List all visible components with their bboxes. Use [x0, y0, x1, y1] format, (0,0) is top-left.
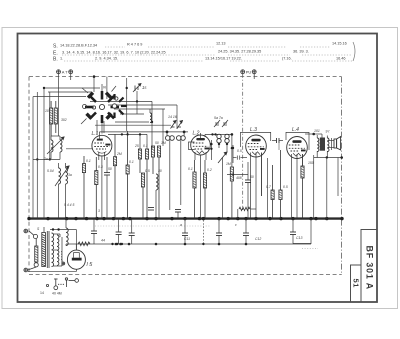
svg-text:50: 50 — [155, 141, 159, 145]
bypass cap 5 — [216, 219, 222, 244]
svg-text:44: 44 — [101, 239, 105, 243]
capacitor C coupling L3-L4 — [272, 138, 283, 150]
band switch star A — [85, 91, 119, 123]
IF transformer 1 — [166, 132, 186, 210]
wire transformer top to bus — [43, 227, 45, 232]
svg-text:B.: B. — [53, 57, 58, 63]
power transformer heater winding — [57, 235, 62, 266]
grid box L2 — [189, 142, 195, 150]
electrolytic cap 3 — [129, 219, 135, 244]
svg-text:L.3: L.3 — [250, 127, 257, 133]
svg-text:2. 9. 4.34. 15.: 2. 9. 4.34. 15. — [95, 57, 118, 61]
svg-text:L.2: L.2 — [193, 131, 200, 137]
svg-text:1.: 1. — [60, 57, 63, 61]
RF choke small coil — [150, 109, 152, 123]
heater wire dots extra — [111, 243, 123, 245]
wire screen L4 — [313, 155, 315, 219]
svg-text:1M: 1M — [226, 162, 231, 166]
svg-text:302: 302 — [61, 118, 67, 122]
band switch star B — [115, 94, 127, 118]
dotted stub right — [302, 248, 318, 250]
svg-text:24.25. 34.35. 27.28.29.35: 24.25. 34.35. 27.28.29.35 — [218, 50, 261, 54]
terminal small below choke — [62, 251, 65, 265]
svg-text:408: 408 — [236, 176, 242, 180]
band switch hub B — [112, 104, 116, 108]
svg-text:L.1: L.1 — [92, 131, 99, 137]
svg-text:0.3: 0.3 — [98, 165, 103, 169]
wire feedback — [326, 158, 328, 219]
switch contact circle left — [83, 105, 87, 109]
junction dots top-left — [36, 75, 153, 160]
power transformer core — [47, 231, 49, 268]
dotted trace under bus — [95, 225, 210, 227]
detector wiring — [211, 140, 248, 175]
bypass cap 6 — [243, 219, 249, 244]
wire speaker frame — [337, 158, 339, 197]
svg-text:36. 39. 3.: 36. 39. 3. — [293, 50, 309, 54]
IF1 trimmer b — [177, 121, 183, 129]
antenna coil pair — [47, 136, 64, 159]
switch contact circle upper — [115, 97, 118, 100]
IF2 trimmer a — [214, 120, 220, 127]
bypass cap 7 — [290, 219, 311, 244]
mains terminal upper — [24, 229, 28, 233]
svg-text:0.1: 0.1 — [143, 144, 148, 148]
voltage selector — [29, 231, 38, 267]
page border frame — [18, 34, 378, 303]
resistor R agc left — [126, 131, 129, 219]
IF transformer 2 — [217, 134, 232, 167]
svg-text:5a 7a: 5a 7a — [214, 116, 223, 120]
svg-text:C12: C12 — [255, 237, 261, 241]
svg-text:PU: PU — [246, 70, 252, 75]
svg-text:a: a — [180, 223, 182, 227]
title block lines — [351, 230, 378, 303]
svg-text:16.46: 16.46 — [336, 57, 346, 61]
coil box NE — [105, 92, 112, 99]
svg-text:L.4: L.4 — [292, 127, 299, 133]
electrolytic cap 2 — [116, 219, 122, 244]
svg-text:0.1: 0.1 — [188, 167, 193, 171]
capacitor C cathode L1 — [104, 157, 110, 219]
tube L1 — [92, 132, 112, 219]
wire L4 anode to transformer — [305, 134, 322, 138]
wire harness top-left horizontals — [33, 88, 177, 125]
svg-text:3: 3 — [98, 209, 100, 213]
svg-text:2a: 2a — [43, 157, 48, 161]
IF1 trimmer a — [171, 121, 177, 129]
svg-text:c: c — [235, 223, 237, 227]
svg-text:5 4 4 5: 5 4 4 5 — [64, 203, 74, 207]
resistor pair upper-left — [50, 101, 58, 136]
grid loop box L3 — [241, 132, 271, 147]
resistor R mid-left a — [82, 156, 85, 219]
svg-text:12.13: 12.13 — [216, 42, 226, 46]
coil box NW — [87, 92, 94, 99]
svg-text:A T: A T — [62, 70, 68, 75]
heater wire lower — [66, 243, 311, 245]
electrolytic cap 1 — [91, 219, 97, 244]
wire harness left verticals — [33, 77, 177, 219]
power transformer HT secondary — [52, 233, 54, 267]
grid loop box L4 — [286, 132, 309, 150]
transformer taps — [53, 234, 62, 266]
tube L2 — [191, 133, 211, 219]
svg-text:1M: 1M — [161, 141, 166, 145]
resistor R screen L1 — [113, 134, 116, 219]
IF2 trimmer b — [222, 120, 228, 127]
coil box SW — [85, 113, 92, 120]
svg-text:10: 10 — [45, 109, 49, 113]
AF choke coil mid — [156, 174, 158, 219]
svg-text:0.5: 0.5 — [283, 185, 288, 189]
capacitor C det — [245, 162, 251, 219]
svg-text:3. 14. 4. 6.15. 14. 8.16.: 3. 14. 4. 6.15. 14. 8.16. 16.17. 32. 19.… — [62, 51, 166, 55]
table right bracket — [353, 42, 355, 61]
resistor R grid L4 — [271, 165, 274, 219]
terminal PU left — [241, 70, 245, 74]
dashed drop pu link — [202, 220, 204, 244]
svg-text:C13: C13 — [296, 236, 302, 240]
svg-text:l 5: l 5 — [87, 262, 94, 268]
wire speaker link — [327, 138, 334, 150]
output transformer core dark — [320, 138, 325, 151]
wire star stubs — [81, 84, 116, 134]
wire AT2 stub — [70, 74, 72, 80]
terminal PU right — [252, 70, 256, 74]
wire bus drop right — [310, 219, 312, 244]
tube socket table — [53, 42, 347, 63]
svg-text:13.14.15/16.17 19.22.: 13.14.15/16.17 19.22. — [205, 57, 242, 61]
svg-text:0.1: 0.1 — [129, 160, 134, 164]
resistor R grid leak L4 — [279, 150, 282, 219]
mains terminal lower — [24, 268, 28, 272]
bus junction dots — [27, 217, 343, 220]
HT wire to anodes — [50, 230, 76, 244]
output transformer secondary winding — [327, 136, 329, 158]
rectifier tube L5 — [28, 244, 86, 271]
pilot lamp group below chassis — [46, 278, 78, 290]
svg-text:0.5: 0.5 — [145, 169, 150, 173]
resistor R screen L2 — [203, 160, 206, 219]
resistor cluster mid (under IF1) — [138, 146, 160, 219]
B+ bus thick — [29, 217, 342, 219]
svg-text:25: 25 — [134, 144, 139, 148]
wire avc drop — [267, 158, 269, 219]
tube L4 — [287, 137, 308, 219]
wire AT lead down — [58, 74, 60, 136]
svg-text:14 16: 14 16 — [168, 115, 177, 119]
wire below transformer — [314, 157, 342, 159]
svg-text:51: 51 — [351, 279, 360, 289]
svg-text:0.5: 0.5 — [237, 149, 242, 153]
dashed chassis box — [29, 77, 342, 275]
svg-text:101: 101 — [314, 129, 320, 133]
bypass cap 4 — [182, 219, 188, 244]
svg-text:14: 14 — [40, 291, 44, 295]
svg-text:S.: S. — [53, 44, 58, 50]
wire PU2 stub — [253, 74, 255, 79]
svg-text:0.7: 0.7 — [266, 185, 271, 189]
power transformer primary — [42, 233, 46, 267]
capacitor on bus 2 — [148, 208, 154, 211]
svg-text:50: 50 — [250, 175, 254, 179]
svg-text:BF 301 A: BF 301 A — [365, 246, 375, 291]
oscillator coil pair lower — [55, 163, 69, 219]
svg-text:(7.16.: (7.16. — [282, 57, 292, 61]
wire PU dash-dot lead — [242, 74, 244, 210]
wire star to L1 top — [97, 120, 104, 134]
resistor R agc 2 — [230, 167, 233, 219]
wire L1 top row — [66, 132, 188, 149]
antenna trimmer cap 1a — [133, 84, 141, 93]
coil box SE — [105, 113, 112, 120]
wire AVC horizontal — [33, 158, 60, 160]
filter choke — [66, 219, 68, 246]
capacitor on bus 1 — [175, 210, 181, 219]
svg-text:14.18.22.28.B.F.12.34: 14.18.22.28.B.F.12.34 — [60, 44, 97, 48]
table leader dotted lines — [62, 47, 352, 61]
resistor R cathode L1 — [95, 157, 98, 219]
svg-text:40 4M: 40 4M — [52, 292, 62, 296]
resistor R cathode L2 — [193, 160, 196, 219]
switch contact circle mid — [92, 106, 95, 109]
svg-text:14.15.16: 14.15.16 — [332, 42, 347, 46]
volume potentiometer arrow — [218, 152, 227, 219]
terminal AT left — [57, 70, 61, 74]
svg-text:R 4 7 6 9: R 4 7 6 9 — [127, 43, 142, 47]
output transformer primary winding — [317, 135, 319, 158]
svg-text:30: 30 — [158, 169, 162, 173]
tube L3 — [246, 135, 267, 219]
band switch hub A — [99, 104, 104, 109]
svg-text:C11: C11 — [184, 237, 190, 241]
terminal AT right — [69, 70, 73, 74]
loudspeaker — [334, 137, 341, 150]
svg-text:N: N — [103, 85, 106, 90]
heater wire dots — [115, 243, 248, 246]
component value labels scatter — [37, 109, 314, 241]
bias resistor L3 — [239, 207, 250, 210]
svg-text:0.1: 0.1 — [86, 159, 91, 163]
svg-text:0.2: 0.2 — [207, 168, 212, 172]
svg-text:150: 150 — [308, 161, 314, 165]
svg-text:5.04: 5.04 — [47, 169, 54, 173]
wire mains lower to selector — [28, 267, 37, 270]
svg-text:2M: 2M — [116, 152, 122, 156]
svg-text:3a: 3a — [68, 173, 72, 177]
svg-text:50: 50 — [108, 167, 112, 171]
resistor R cathode L4 — [301, 166, 304, 219]
wire L2 top row — [205, 134, 233, 137]
heater dropping resistor — [78, 242, 90, 246]
